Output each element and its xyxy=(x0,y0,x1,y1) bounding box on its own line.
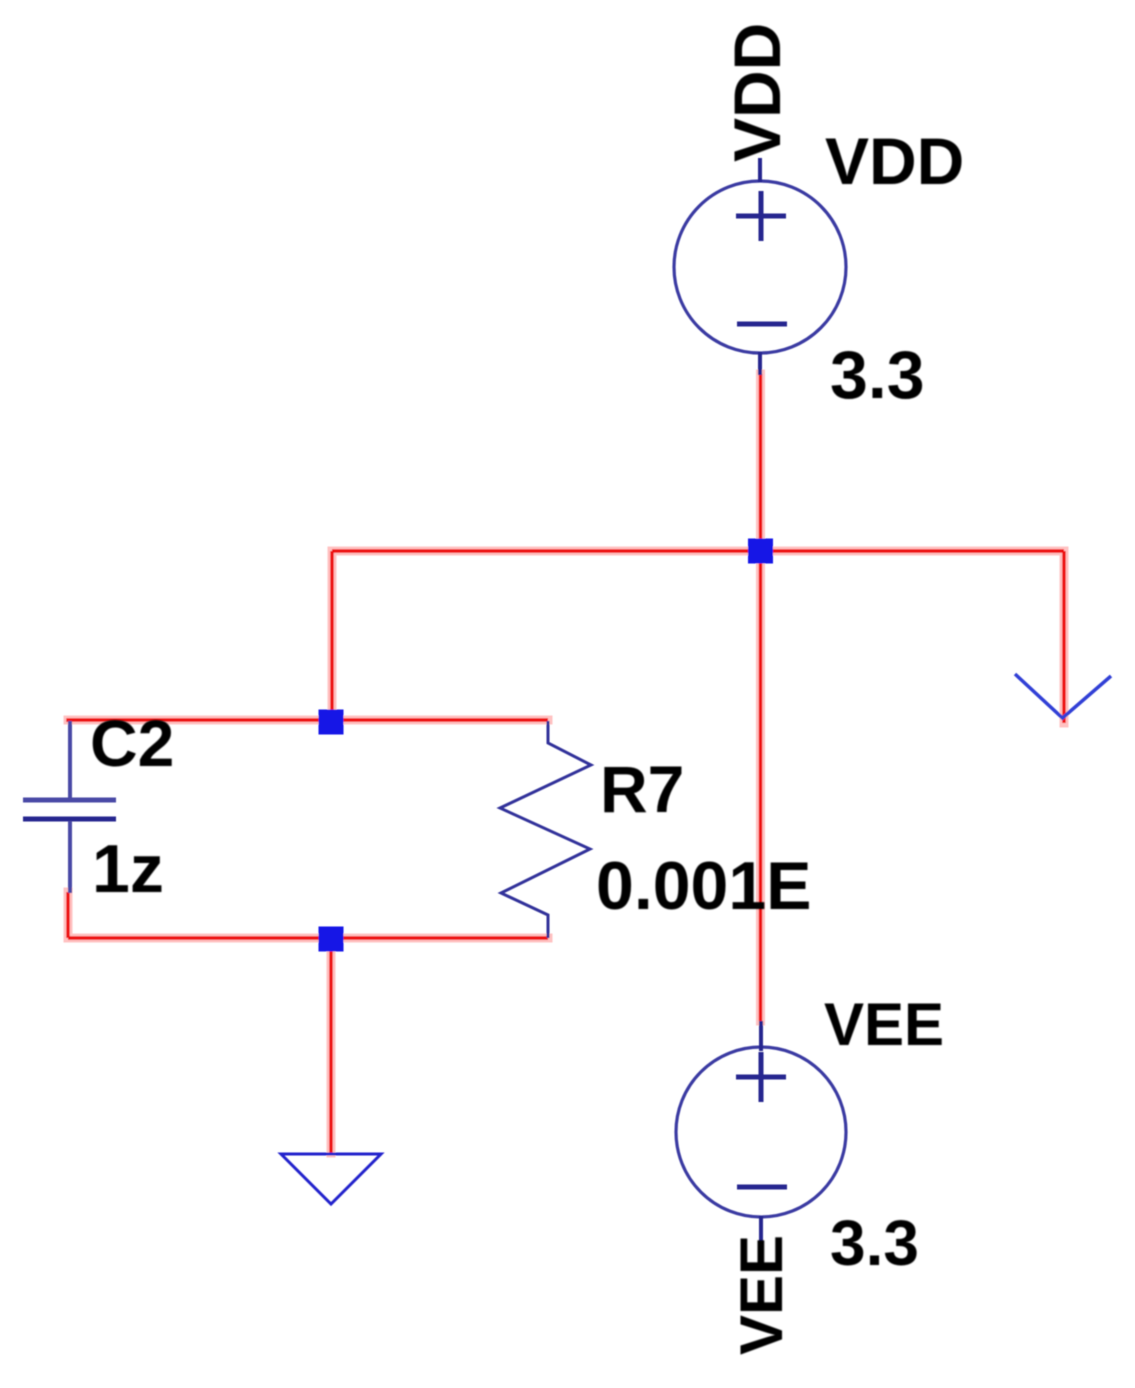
svg-text:C2: C2 xyxy=(90,706,174,780)
svg-text:VEE: VEE xyxy=(824,991,944,1058)
wire top of C2/R7 loop xyxy=(68,718,548,722)
ground symbol xyxy=(281,1154,381,1204)
voltage source VEE (circle symbol) xyxy=(676,1047,846,1217)
wire bottom of C2/R7 loop xyxy=(68,936,548,939)
arrow head on right wire xyxy=(1015,674,1111,718)
svg-text:R7: R7 xyxy=(600,752,684,826)
capacitor C2 symbol xyxy=(68,721,72,798)
wire VDD source bottom to VEE source top (through node) xyxy=(759,374,762,1021)
wire right drop from bus xyxy=(1062,551,1065,723)
junction node top of loop xyxy=(319,710,344,735)
VEE top lead xyxy=(759,1021,763,1051)
voltage source VDD (circle symbol) xyxy=(674,181,846,353)
wire horizontal bus at node xyxy=(332,549,1064,552)
wire left drop from bus xyxy=(330,551,333,722)
svg-text:3.3: 3.3 xyxy=(830,337,925,413)
svg-text:1z: 1z xyxy=(92,831,164,907)
VEE plus sign xyxy=(736,1052,786,1102)
resistor R7 zigzag xyxy=(500,721,591,938)
wire left stub above bottom loop xyxy=(66,892,69,938)
wire to ground xyxy=(329,938,332,1153)
svg-text:3.3: 3.3 xyxy=(830,1207,919,1279)
svg-text:0.001E: 0.001E xyxy=(596,848,812,924)
junction node bottom of loop xyxy=(319,927,344,952)
VDD minus sign xyxy=(737,322,787,327)
VDD top lead xyxy=(758,158,762,182)
svg-text:VDD: VDD xyxy=(720,23,794,162)
VDD bottom lead xyxy=(758,352,762,375)
svg-text:VEE: VEE xyxy=(728,1235,795,1355)
wire halos (red wiring glow) xyxy=(68,374,1064,1153)
junction node at bus/center xyxy=(748,539,773,564)
VDD plus sign xyxy=(736,191,786,241)
VEE minus sign xyxy=(737,1185,787,1190)
VEE bottom lead xyxy=(759,1216,763,1242)
svg-text:VDD: VDD xyxy=(825,124,964,198)
